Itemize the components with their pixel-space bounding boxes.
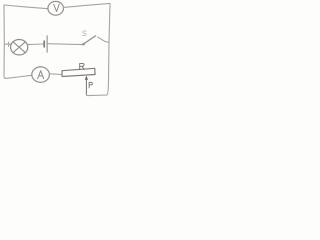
wire top-left segment: [4, 5, 48, 9]
label S: [83, 31, 87, 36]
wire stub to lamp: [4, 43, 10, 45]
ammeter U2 (A): [32, 67, 50, 82]
wire lamp to battery: [28, 43, 43, 46]
label R: [80, 63, 85, 69]
switch S pivot: [82, 43, 85, 46]
slider P arrow: [85, 76, 88, 95]
resistor R body: [62, 68, 95, 76]
wire right bus: [107, 3, 110, 94]
switch S blade: [82, 36, 95, 45]
label P: [89, 82, 92, 88]
battery B1 short plate: [43, 41, 45, 47]
voltmeter U1 (V): [48, 1, 64, 15]
wire ammeter to resistor: [49, 73, 61, 76]
wire bottom-left to ammeter: [6, 75, 32, 78]
lamp L1: [11, 40, 28, 55]
switch S right lead: [98, 37, 109, 42]
wire battery to switch: [48, 43, 83, 46]
junction tick: [8, 42, 10, 46]
battery B1 long plate: [46, 36, 48, 53]
wire top-right segment: [64, 3, 111, 7]
wire slider to right bus: [86, 94, 107, 97]
wire left bus: [4, 5, 6, 79]
